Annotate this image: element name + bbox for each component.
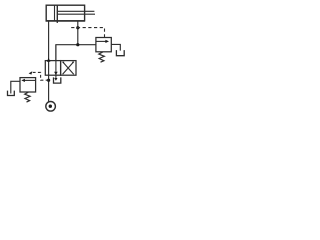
relief valve left: spring [25,92,30,102]
cylinder body [46,5,84,21]
relief valve left: body [20,78,36,92]
energy source center dot [49,105,52,108]
tank middle below valve [54,77,61,83]
relief valve right: internal arrow [97,40,106,42]
node junction dot: pilot tap on rod line [76,26,79,29]
pilot dashed line to right relief valve [71,28,104,38]
relief valve left: internal arrow [25,79,36,81]
valve internal down arrow [54,72,58,75]
tank right [116,50,124,56]
pilot arrowhead left [29,71,33,74]
wire: valve port T stub down to tank [55,45,57,80]
directional valve 4/2: right box [61,61,76,76]
valve internal up arrow [47,58,51,62]
node junction dot: rod line to B wire [76,43,79,46]
valve T-port arrow into tank [54,78,57,81]
piston rod bottom [57,13,95,15]
cylinder bottom edge emphasis [46,20,85,22]
relief valve right: body [96,38,111,52]
wire: cylinder cap side down through valve to pump (node P-A line) [48,21,50,103]
wire: cylinder rod side down [77,21,79,45]
wire: valve port B up and right to relief valve [56,45,96,61]
valve crossed path X line 2 [63,62,74,74]
piston rod top [57,10,94,12]
relief valve right: spring [99,52,105,62]
directional valve 4/2: left box [45,61,60,76]
tank left [8,91,15,96]
node junction dot: pilot tap on pump line [47,79,50,82]
piston line 2 [56,5,58,23]
wire: relief valve right outlet to tank [111,44,120,50]
valve crossed path X line 1 [63,62,74,74]
pilot dashed line from pump line to left relief valve [32,72,49,80]
energy source circle (pump) [46,102,56,112]
piston line 1 [54,5,56,20]
wire: relief valve left outlet to tank [11,81,20,93]
